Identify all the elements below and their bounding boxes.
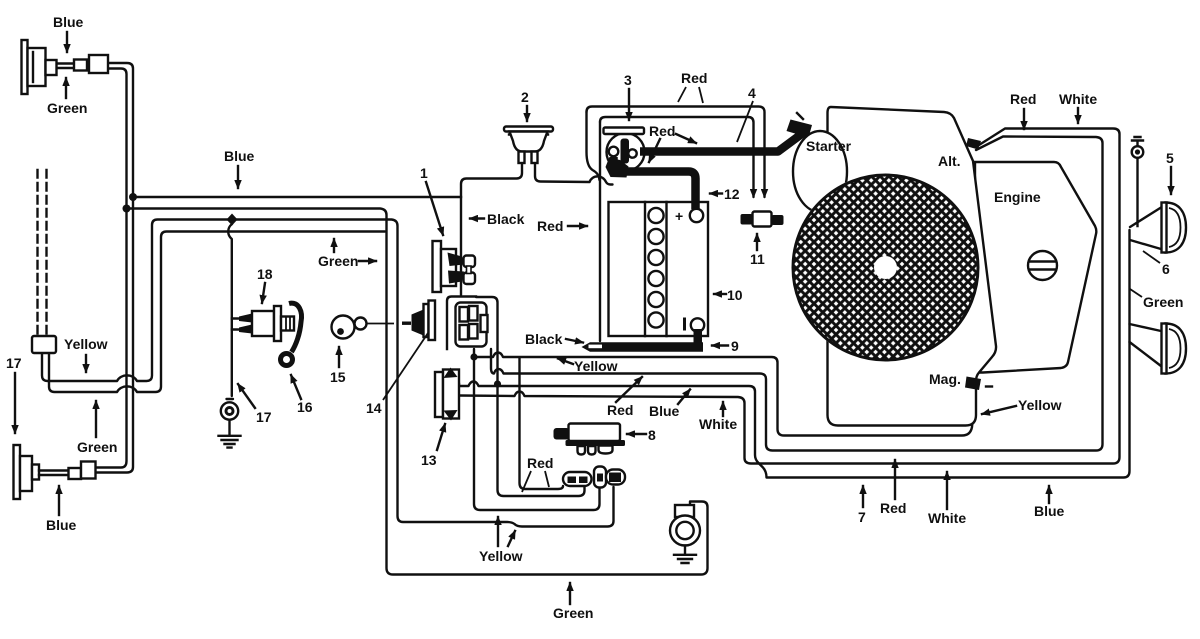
wire green horizontal from lamp trunk to bottom loop: [127, 209, 708, 575]
svg-text:Black: Black: [487, 211, 525, 227]
lamp 6 bracket wires: [1130, 324, 1162, 366]
svg-text:Mag.: Mag.: [929, 371, 961, 387]
svg-text:3: 3: [624, 72, 632, 88]
wire branch from block top right to connector A: [476, 297, 585, 496]
svg-text:Red: Red: [537, 218, 563, 234]
svg-text:Red: Red: [1010, 91, 1036, 107]
buzzer 15 (round indicator): [332, 316, 367, 339]
wire red from key switch (right prong) with hump over loop wire: [535, 152, 613, 185]
starter circle: [793, 131, 847, 212]
node junction dot on blue wire: [129, 193, 137, 201]
svg-text:14: 14: [366, 400, 382, 416]
switch 18 (ignition interlock): [239, 306, 294, 341]
svg-text:1: 1: [420, 165, 428, 181]
svg-text:Blue: Blue: [224, 148, 255, 164]
wire loop inner (solenoid circuit): [600, 117, 754, 197]
svg-text:17: 17: [256, 409, 272, 425]
wire blue bundle: comp13 to lamps 5/6: [459, 230, 1130, 478]
wire blue vertical right trunk (top lamp to bottom lamp, inner): [95, 63, 133, 473]
wire branch from diamond down to switch 18 and ground (with hump over green): [228, 221, 232, 396]
switch 13 (safety switch): [435, 368, 459, 421]
wire branch yellow tap to connector A left: [520, 358, 564, 489]
harness dashed leads top-left: [38, 170, 47, 336]
relay 8 (with mounting pins): [554, 424, 626, 455]
svg-text:13: 13: [421, 452, 437, 468]
starter cable lug: [787, 120, 813, 138]
wire loop outer (solenoid circuit) top: [587, 107, 765, 198]
node diamond junction on yellow wire: [227, 214, 238, 226]
node junction dot on green wire: [123, 205, 131, 213]
alternator terminal blob: [966, 138, 981, 150]
wire branch from block to connector B left pill: [474, 349, 600, 510]
wire yellow bundle: junction to magneto: [474, 353, 976, 436]
wire loop inner left stub joining splice: [599, 122, 601, 341]
svg-text:Black: Black: [525, 331, 563, 347]
svg-text:Red: Red: [681, 70, 707, 86]
ground symbol (middle): [219, 420, 241, 448]
svg-text:Alt.: Alt.: [938, 153, 961, 169]
node junction dot blue/branch: [494, 380, 501, 387]
svg-text:6: 6: [1162, 261, 1170, 277]
battery 10: [609, 202, 709, 336]
svg-text:+: +: [675, 208, 683, 224]
battery cable 4 (thick, solenoid to starter): [640, 132, 805, 152]
wire loop outer left vertical with splice notch: [587, 112, 600, 180]
connector on top headlight wire: [74, 60, 87, 71]
harness connector block: [32, 336, 56, 353]
wire stub comp13 upper terminal: [458, 384, 460, 386]
svg-text:Engine: Engine: [994, 189, 1041, 205]
lamp 5 bracket wires: [1130, 208, 1161, 250]
svg-text:18: 18: [257, 266, 273, 282]
engine oil filler circle: [1028, 251, 1057, 280]
svg-text:White: White: [699, 416, 737, 432]
magneto kill lead grounded plug: [670, 505, 700, 563]
battery cable 12 (thick, solenoid to battery +): [614, 157, 696, 209]
flywheel screen (crosshatched): [792, 174, 980, 362]
wire white bundle: comp13 to lamps loop via right side: [459, 129, 1120, 464]
svg-text:Blue: Blue: [649, 403, 680, 419]
bracket 16 (curved clip): [281, 303, 302, 365]
key switch 2 (top view): [504, 127, 553, 164]
svg-text:Blue: Blue: [53, 14, 84, 30]
starter solenoid 3: [604, 128, 645, 178]
svg-text:Blue: Blue: [46, 517, 77, 533]
svg-text:Red: Red: [607, 402, 633, 418]
ground ring terminal 17 (middle): [221, 399, 238, 420]
battery + terminal: [690, 209, 703, 222]
fuse 11: [741, 212, 784, 227]
svg-text:10: 10: [727, 287, 743, 303]
wire dash before plug 14: [402, 322, 411, 325]
battery ground cable 9 (thick with spade end): [582, 329, 704, 352]
svg-text:Yellow: Yellow: [1018, 397, 1062, 413]
svg-text:White: White: [928, 510, 966, 526]
wire blue horizontal to key switch area: [133, 196, 461, 198]
connector B (plug pair): [594, 467, 625, 488]
connector small on bottom lamp wire: [69, 468, 82, 479]
headlamp bottom-left (item 17: headlight): [14, 445, 70, 499]
wire yellow from harness connector through lamp loop to connector B: [42, 220, 614, 527]
wire red bundle: comp13 area to alternator via bottom loop: [491, 137, 1103, 451]
node junction dot yellow/block stub: [470, 353, 477, 360]
svg-text:Green: Green: [553, 605, 593, 621]
svg-text:15: 15: [330, 369, 346, 385]
svg-text:2: 2: [521, 89, 529, 105]
svg-text:16: 16: [297, 399, 313, 415]
engine block (right section): [975, 162, 1096, 373]
lamp ground tag (top right): [1132, 137, 1144, 158]
headlamp top-left (item: headlight): [22, 40, 57, 94]
svg-text:12: 12: [724, 186, 740, 202]
svg-text:Yellow: Yellow: [574, 358, 618, 374]
switch 1 (light switch): [433, 241, 476, 292]
lamp 5 (rear light): [1162, 203, 1187, 253]
svg-text:Green: Green: [1143, 294, 1183, 310]
svg-text:Red: Red: [880, 500, 906, 516]
wire from component 15 to plug 14: [366, 323, 394, 325]
svg-text:White: White: [1059, 91, 1097, 107]
svg-text:4: 4: [748, 85, 756, 101]
lamp 6 (rear light): [1162, 324, 1187, 374]
wire black from key switch (left prong) down to connector block: [461, 152, 522, 295]
connector A (two-wire plug): [563, 472, 592, 486]
svg-text:Blue: Blue: [1034, 503, 1065, 519]
svg-text:9: 9: [731, 338, 739, 354]
svg-text:Yellow: Yellow: [479, 548, 523, 564]
magneto terminal blob: [965, 377, 981, 391]
wire green second branch from harness connector: [49, 232, 385, 393]
svg-text:Green: Green: [77, 439, 117, 455]
wire lamp tag stub: [1136, 158, 1138, 226]
battery - terminal: [691, 318, 704, 331]
svg-text:Green: Green: [318, 253, 358, 269]
connector larger on top headlight wire: [89, 55, 108, 73]
connector large on bottom lamp wire: [81, 462, 96, 479]
svg-text:Red: Red: [527, 455, 553, 471]
connector block 14: [447, 297, 488, 350]
svg-text:5: 5: [1166, 150, 1174, 166]
svg-text:17: 17: [6, 355, 22, 371]
svg-text:Red: Red: [649, 123, 675, 139]
wire stubs to switch 18 spades: [232, 319, 240, 330]
svg-text:11: 11: [750, 251, 765, 267]
svg-text:Yellow: Yellow: [64, 336, 108, 352]
svg-text:Starter: Starter: [806, 138, 852, 154]
wire blue vertical left trunk (top lamp to bottom lamp, outer): [95, 69, 127, 468]
plug 14 (switch connector cone): [412, 301, 436, 341]
svg-text:8: 8: [648, 427, 656, 443]
wire blue pair from top headlight (horizontal leads): [57, 64, 75, 69]
svg-text:Green: Green: [47, 100, 87, 116]
svg-text:7: 7: [858, 509, 866, 525]
engine flywheel housing: [828, 107, 997, 426]
